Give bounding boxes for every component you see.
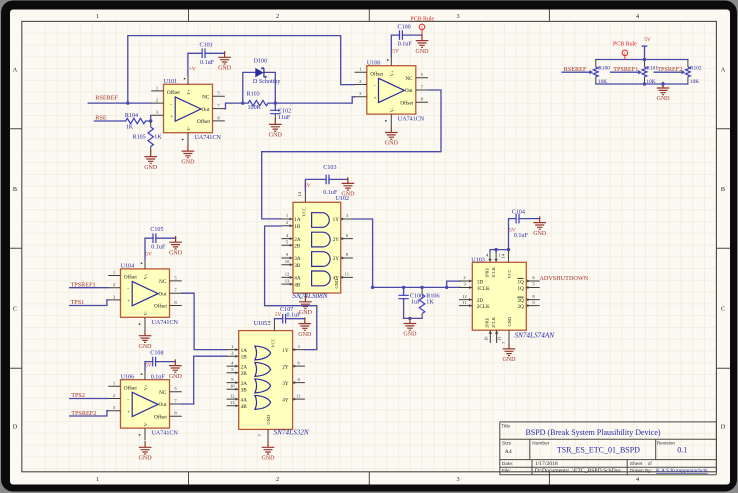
svg-text:3Y: 3Y bbox=[333, 256, 340, 262]
ground at C107 bbox=[298, 317, 312, 337]
svg-text:RSEREF: RSEREF bbox=[564, 66, 587, 73]
svg-text:PCB Rule: PCB Rule bbox=[613, 41, 637, 47]
svg-text:R105: R105 bbox=[133, 134, 146, 140]
svg-text:5V: 5V bbox=[304, 183, 311, 189]
svg-text:RSEREF: RSEREF bbox=[95, 95, 118, 102]
resistor R102 10K bbox=[686, 66, 702, 85]
quad OR gate U105 (SN74LS32N) bbox=[227, 319, 310, 444]
svg-text:Offset: Offset bbox=[197, 118, 210, 125]
svg-text:D: D bbox=[721, 423, 726, 430]
capacitor C108 0.1uF bbox=[145, 350, 175, 380]
svg-text:SN74LS32N: SN74LS32N bbox=[274, 429, 310, 437]
svg-text:SN74LS74AN: SN74LS74AN bbox=[515, 331, 556, 339]
svg-text:2B: 2B bbox=[294, 244, 301, 250]
svg-text:Out: Out bbox=[202, 107, 210, 113]
svg-text:C104: C104 bbox=[512, 209, 525, 215]
junction R104/R105 bbox=[149, 119, 152, 122]
svg-text:5V: 5V bbox=[275, 312, 282, 318]
svg-text:-: - bbox=[374, 83, 376, 89]
svg-text:V-: V- bbox=[143, 311, 148, 316]
svg-text:11: 11 bbox=[296, 393, 301, 398]
wire TPSREF1 to U104 pin2 bbox=[70, 287, 109, 289]
svg-text:100K: 100K bbox=[248, 105, 262, 111]
svg-text:1PRE: 1PRE bbox=[484, 267, 489, 278]
svg-text:C100: C100 bbox=[398, 25, 411, 31]
svg-text:K A S Kuruppuarachchi: K A S Kuruppuarachchi bbox=[656, 468, 708, 474]
svg-text:+: + bbox=[127, 409, 130, 415]
ground below U102 bbox=[299, 296, 313, 316]
svg-text:4A: 4A bbox=[294, 276, 301, 282]
svg-text:1B: 1B bbox=[294, 224, 301, 230]
svg-text:GND: GND bbox=[507, 317, 512, 327]
svg-text:1K: 1K bbox=[126, 125, 134, 131]
svg-text:1: 1 bbox=[624, 51, 626, 56]
ground at C101 bbox=[218, 51, 232, 71]
capacitor C102 11uF bbox=[270, 103, 291, 121]
svg-text:3B: 3B bbox=[241, 387, 248, 393]
svg-text:U104: U104 bbox=[121, 264, 135, 270]
svg-text:10K: 10K bbox=[690, 79, 699, 85]
svg-text:UA741CN: UA741CN bbox=[152, 320, 179, 326]
ground below U104 bbox=[139, 330, 153, 350]
ground at C105 bbox=[169, 236, 183, 256]
capacitor C107 0.1uF bbox=[274, 307, 304, 324]
svg-text:D Schottky: D Schottky bbox=[253, 79, 282, 85]
ground below U106 bbox=[139, 441, 153, 461]
wire R103 right to U100 pin3 bbox=[268, 97, 355, 103]
ground below U103 bbox=[503, 343, 517, 363]
svg-text:Date:: Date: bbox=[502, 461, 513, 467]
svg-text:R103: R103 bbox=[247, 92, 260, 98]
resistor R103 100K bbox=[247, 92, 269, 112]
svg-text:Size: Size bbox=[502, 440, 512, 446]
svg-text:5V: 5V bbox=[145, 362, 152, 368]
svg-text:5V: 5V bbox=[145, 252, 152, 258]
svg-text:GND: GND bbox=[266, 415, 271, 425]
svg-text:4B: 4B bbox=[294, 282, 301, 288]
op-amp U104 (UA741CN) bbox=[108, 260, 182, 330]
svg-text:10: 10 bbox=[230, 383, 235, 388]
svg-text:13: 13 bbox=[230, 400, 235, 405]
svg-text:2PRE: 2PRE bbox=[484, 317, 489, 328]
dual D flip-flop U103 (SN74LS74AN) bbox=[459, 250, 555, 345]
svg-text:+: + bbox=[170, 114, 173, 120]
junction R103 right / C102 / D100 bbox=[274, 101, 277, 104]
capacitor C100 0.1uF bbox=[391, 25, 422, 57]
svg-text:Sheet of: Sheet of bbox=[630, 461, 653, 467]
svg-text:12: 12 bbox=[285, 272, 290, 277]
svg-text:1D: 1D bbox=[477, 279, 484, 285]
svg-text:3Y: 3Y bbox=[282, 381, 289, 387]
svg-text:PCB Rule: PCB Rule bbox=[410, 16, 434, 22]
wire R104 to node bbox=[146, 115, 152, 121]
wire U104 out to U105 1A bbox=[182, 293, 227, 349]
svg-text:VCC: VCC bbox=[270, 338, 275, 347]
svg-text:R100: R100 bbox=[598, 66, 610, 72]
svg-text:SN74LS08N: SN74LS08N bbox=[292, 292, 328, 300]
wire U105 1Y to U102 1B bbox=[265, 226, 317, 350]
junction R103 left / D100 bbox=[241, 101, 244, 104]
svg-text:ADVSHUTDOWN: ADVSHUTDOWN bbox=[539, 275, 588, 282]
capacitor C104 0.1uF bbox=[512, 209, 529, 239]
wire U100 out to U102 1A bbox=[262, 90, 441, 219]
svg-text:1Q: 1Q bbox=[517, 279, 524, 285]
svg-text:0.1uF: 0.1uF bbox=[200, 60, 215, 66]
port TPSREF1 to R101 bbox=[611, 66, 642, 74]
ground below RC filter bbox=[403, 317, 417, 337]
svg-text:4: 4 bbox=[636, 476, 639, 483]
svg-text:4: 4 bbox=[636, 13, 639, 20]
svg-text:10K: 10K bbox=[598, 79, 607, 85]
ground at C100 bbox=[416, 34, 430, 54]
capacitor C103 0.1uF bbox=[305, 165, 348, 196]
svg-text:TSR_ES_ETC_01_BSPD: TSR_ES_ETC_01_BSPD bbox=[557, 445, 640, 454]
svg-text:Out: Out bbox=[159, 402, 167, 408]
svg-text:Title: Title bbox=[501, 424, 510, 430]
svg-text:Drawn By:: Drawn By: bbox=[630, 468, 652, 474]
svg-text:Out: Out bbox=[405, 88, 413, 94]
resistor R101 10K bbox=[642, 66, 658, 85]
svg-text:2Q: 2Q bbox=[517, 298, 524, 304]
svg-text:2CLK: 2CLK bbox=[477, 304, 490, 310]
svg-text:NC: NC bbox=[159, 279, 167, 285]
svg-text:2A: 2A bbox=[241, 364, 248, 370]
svg-text:UA741CN: UA741CN bbox=[398, 117, 425, 123]
svg-text:VCC: VCC bbox=[507, 269, 512, 278]
title block bbox=[500, 422, 717, 475]
svg-text:0.1uF: 0.1uF bbox=[323, 190, 338, 196]
svg-text:U103: U103 bbox=[471, 257, 485, 263]
svg-text:C: C bbox=[721, 305, 725, 312]
svg-text:Revision: Revision bbox=[657, 440, 676, 446]
svg-text:1CLK: 1CLK bbox=[477, 286, 490, 292]
svg-text:Offset: Offset bbox=[154, 414, 167, 421]
svg-text:0.1uF: 0.1uF bbox=[398, 41, 413, 47]
svg-text:UA741CN: UA741CN bbox=[152, 431, 179, 437]
svg-text:1: 1 bbox=[96, 13, 99, 20]
power 5V at ladder bbox=[642, 37, 651, 60]
svg-text:C105: C105 bbox=[150, 227, 163, 233]
svg-text:4Y: 4Y bbox=[282, 397, 289, 403]
op-amp U100 (UA741CN) bbox=[355, 56, 429, 126]
svg-text:D100: D100 bbox=[254, 59, 268, 65]
resistor R104 1K bbox=[125, 113, 146, 131]
wire U102 1Y down to RC filter bbox=[353, 219, 373, 287]
svg-text:Offset: Offset bbox=[124, 274, 137, 281]
svg-text:A: A bbox=[13, 66, 18, 73]
svg-text:3A: 3A bbox=[241, 381, 248, 387]
svg-text:A: A bbox=[721, 66, 726, 73]
svg-text:V+: V+ bbox=[143, 384, 148, 390]
capacitor C106 1uF bbox=[398, 287, 423, 318]
svg-text:1B: 1B bbox=[241, 354, 248, 360]
svg-text:1A: 1A bbox=[294, 217, 301, 223]
svg-text:U101: U101 bbox=[164, 79, 178, 85]
svg-text:10K: 10K bbox=[646, 79, 655, 85]
svg-text:V-: V- bbox=[186, 126, 191, 131]
svg-text:Offset: Offset bbox=[167, 89, 180, 96]
svg-text:C108: C108 bbox=[150, 350, 163, 356]
svg-text:UA741CN: UA741CN bbox=[195, 135, 222, 141]
svg-text:2A: 2A bbox=[294, 237, 301, 243]
wire TPSREF2 to U106 pin3 bbox=[70, 411, 109, 416]
svg-text:U105: U105 bbox=[254, 321, 268, 327]
svg-text:2CLK: 2CLK bbox=[491, 316, 496, 328]
wire U101 out to R103 bbox=[225, 103, 249, 109]
svg-text:3: 3 bbox=[456, 476, 459, 483]
svg-text:V-: V- bbox=[389, 107, 394, 112]
ground below U101 bbox=[181, 145, 195, 165]
wire RC node to U103 1D and 1CLK bbox=[373, 281, 461, 287]
svg-text:3: 3 bbox=[456, 13, 459, 20]
svg-text:1K: 1K bbox=[426, 300, 434, 306]
svg-text:1A: 1A bbox=[241, 348, 248, 354]
svg-text:4A: 4A bbox=[241, 397, 248, 403]
svg-text:C101: C101 bbox=[200, 43, 213, 49]
svg-text:13: 13 bbox=[285, 278, 290, 283]
svg-text:C: C bbox=[13, 305, 17, 312]
ground below U100 bbox=[385, 126, 399, 146]
wire U106 out to U105 1B bbox=[182, 356, 227, 404]
svg-text:11uF: 11uF bbox=[278, 115, 291, 121]
svg-text:12: 12 bbox=[230, 393, 235, 398]
svg-text:-: - bbox=[127, 286, 129, 292]
svg-text:File:: File: bbox=[502, 468, 511, 474]
ground below U105 bbox=[262, 441, 276, 461]
svg-text:11: 11 bbox=[462, 300, 467, 305]
svg-text:1: 1 bbox=[421, 25, 423, 30]
svg-text:R104: R104 bbox=[125, 113, 138, 119]
svg-text:NC: NC bbox=[159, 390, 167, 396]
PCB Rule directive 2 bbox=[613, 41, 637, 59]
ground at C108 bbox=[169, 359, 183, 379]
svg-text:B: B bbox=[721, 186, 725, 193]
svg-text:R102: R102 bbox=[690, 66, 702, 72]
ground below R105 bbox=[144, 150, 158, 170]
svg-text:0.1: 0.1 bbox=[677, 445, 687, 454]
svg-text:TPSREF2: TPSREF2 bbox=[657, 66, 682, 73]
svg-text:Offset: Offset bbox=[154, 303, 167, 310]
svg-text:11: 11 bbox=[345, 272, 350, 277]
svg-text:3B: 3B bbox=[294, 263, 301, 269]
resistor R106 1K bbox=[419, 287, 439, 318]
U103 supply wires bbox=[490, 219, 540, 252]
svg-text:2B: 2B bbox=[241, 371, 248, 377]
svg-text:2Y: 2Y bbox=[333, 237, 340, 243]
op-amp U101 (UA741CN) bbox=[151, 75, 225, 145]
resistor ladder rails bbox=[596, 60, 688, 85]
quad AND gate U102 (SN74LS08N) bbox=[281, 191, 353, 300]
svg-text:V+: V+ bbox=[143, 273, 148, 279]
svg-text:2D: 2D bbox=[477, 298, 484, 304]
svg-text:NC: NC bbox=[202, 95, 210, 101]
diode D100 D Schottky bbox=[243, 59, 282, 103]
svg-text:4B: 4B bbox=[241, 404, 248, 410]
svg-text:D:\Documents\..\ETC_BSPD.SchDo: D:\Documents\..\ETC_BSPD.SchDoc bbox=[535, 468, 622, 474]
resistor R105 1K bbox=[133, 121, 163, 153]
svg-text:BSPD (Break System Plausibilit: BSPD (Break System Plausibility Device) bbox=[525, 428, 660, 437]
svg-text:0.1uF: 0.1uF bbox=[151, 374, 166, 380]
svg-text:C102: C102 bbox=[278, 108, 291, 114]
ground at ladder bbox=[662, 84, 664, 88]
svg-text:V+: V+ bbox=[389, 70, 394, 76]
svg-text:D: D bbox=[13, 423, 18, 430]
svg-text:Number: Number bbox=[532, 440, 549, 446]
svg-text:U106: U106 bbox=[121, 374, 135, 380]
resistor R100 10K bbox=[593, 66, 610, 85]
wire TPS2 to U106 pin2 bbox=[70, 398, 109, 400]
svg-text:V-: V- bbox=[143, 421, 148, 426]
svg-text:0.1uF: 0.1uF bbox=[151, 245, 166, 251]
svg-text:VCC: VCC bbox=[301, 207, 306, 216]
capacitor C105 0.1uF bbox=[145, 227, 176, 259]
svg-text:3A: 3A bbox=[294, 256, 301, 262]
svg-text:5V: 5V bbox=[644, 37, 651, 43]
svg-text:C103: C103 bbox=[323, 165, 336, 171]
svg-text:2Q: 2Q bbox=[517, 304, 524, 310]
svg-text:-: - bbox=[170, 102, 172, 108]
svg-text:2: 2 bbox=[276, 13, 279, 20]
port RSEREF to R100 bbox=[562, 66, 593, 74]
wire RC bottom bbox=[404, 317, 423, 319]
svg-text:0.1uF: 0.1uF bbox=[287, 312, 302, 318]
ground at C102 bbox=[269, 118, 283, 138]
junction RSEREF/U101 bbox=[126, 101, 129, 104]
svg-text:-: - bbox=[127, 397, 129, 403]
svg-text:Offset: Offset bbox=[124, 385, 137, 392]
svg-text:TPSREF1: TPSREF1 bbox=[613, 66, 638, 73]
svg-text:Offset: Offset bbox=[400, 100, 413, 107]
svg-text:U100: U100 bbox=[367, 60, 381, 66]
svg-text:V+: V+ bbox=[186, 89, 191, 95]
svg-text:Out: Out bbox=[159, 291, 167, 297]
svg-text:NC: NC bbox=[405, 76, 413, 82]
svg-text:5V: 5V bbox=[509, 227, 516, 233]
svg-text:1Q: 1Q bbox=[517, 286, 524, 292]
port TPSREF2 to R102 bbox=[654, 66, 685, 74]
svg-text:2Y: 2Y bbox=[282, 364, 289, 370]
wire TPS1 to U104 pin3 bbox=[70, 300, 109, 306]
svg-text:1Y: 1Y bbox=[333, 217, 340, 223]
PCB Rule directive 1 bbox=[410, 16, 434, 35]
capacitor C101 0.1uF bbox=[188, 43, 225, 76]
svg-text:1Y: 1Y bbox=[282, 348, 289, 354]
svg-text:1CLK: 1CLK bbox=[491, 266, 496, 278]
svg-text:1/17/2018: 1/17/2018 bbox=[535, 461, 558, 467]
wire RSE to R104 bbox=[94, 120, 125, 122]
svg-text:1K: 1K bbox=[154, 134, 162, 140]
svg-text:GND: GND bbox=[334, 279, 339, 289]
svg-text:Offset: Offset bbox=[370, 71, 383, 78]
svg-text:B: B bbox=[13, 186, 17, 193]
ground at C104 bbox=[533, 216, 547, 236]
op-amp U106 (UA741CN) bbox=[108, 370, 182, 440]
svg-text:2: 2 bbox=[276, 476, 279, 483]
ground at C103 bbox=[341, 177, 355, 197]
svg-text:1: 1 bbox=[96, 476, 99, 483]
wire RSEREF to U101 pin2 bbox=[88, 102, 151, 104]
svg-text:10: 10 bbox=[285, 259, 290, 264]
svg-text:A4: A4 bbox=[505, 449, 512, 455]
svg-text:0.1uF: 0.1uF bbox=[514, 233, 529, 239]
wire RSEREF riser to U100 pin2 bbox=[128, 36, 355, 104]
svg-text:+: + bbox=[374, 95, 377, 101]
svg-text:+: + bbox=[127, 299, 130, 305]
svg-text:+V: +V bbox=[189, 66, 196, 72]
svg-text:12: 12 bbox=[462, 294, 467, 299]
svg-text:5V: 5V bbox=[392, 48, 399, 54]
